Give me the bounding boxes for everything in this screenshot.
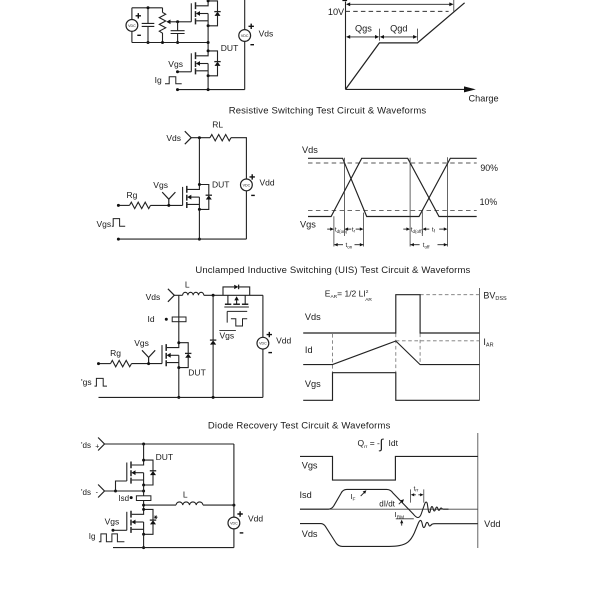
- label tf: [432, 226, 436, 233]
- svg-text:Qrr = -: Qrr = -: [358, 438, 381, 450]
- voltage source Vdd (resistive): [241, 174, 255, 239]
- svg-text:dI/dt: dI/dt: [379, 499, 395, 508]
- label Vds (DR waveform): [302, 529, 318, 539]
- Ig pulse glyph: [165, 77, 182, 84]
- svg-text:Vgs: Vgs: [97, 219, 112, 229]
- svg-text:Charge: Charge: [469, 94, 499, 104]
- wire Q6 source to bottom rail: [142, 534, 145, 549]
- label Rg: [127, 190, 138, 200]
- label Vds-: [81, 488, 99, 497]
- label Vdd (DR): [248, 514, 263, 524]
- svg-text:Vgs: Vgs: [302, 460, 318, 470]
- svg-text:Id: Id: [148, 314, 155, 324]
- dashed IAR level: [396, 340, 480, 342]
- svg-text:Vgs: Vgs: [153, 180, 168, 190]
- label Id: [148, 314, 155, 324]
- wire Q4 source to bottom: [177, 368, 180, 399]
- dashed 10V level line: [346, 10, 449, 12]
- label Vdd: [260, 177, 275, 187]
- mosfet Q4 DUT (UIS): [162, 341, 191, 369]
- resistor Rg: [130, 202, 151, 208]
- dashed vertical t2: [419, 334, 421, 365]
- mosfet Q1 (upper, driver): [191, 0, 220, 27]
- dashed BVDSS level: [420, 294, 479, 296]
- trr dimension arrows: [411, 493, 424, 496]
- title resistive switching: [229, 105, 427, 116]
- wire mid node to inductor: [144, 504, 176, 506]
- clamp mosfet body diode loop: [223, 285, 250, 296]
- svg-text:10V: 10V: [328, 7, 345, 17]
- title UIS: [195, 265, 470, 276]
- svg-text:'gs: 'gs: [81, 377, 92, 387]
- svg-text:Vdd: Vdd: [484, 519, 500, 529]
- svg-text:Unclamped Inductive Switching: Unclamped Inductive Switching (UIS) Test…: [195, 265, 470, 276]
- label Id (UIS waveform): [305, 345, 313, 355]
- wire input to Rg (UIS): [97, 362, 111, 365]
- label Vdd (UIS): [276, 336, 291, 346]
- svg-text:Vds: Vds: [305, 312, 321, 322]
- label DUT (DR): [156, 452, 173, 462]
- wire inductor to rail: [203, 504, 235, 507]
- wire top rail (DR): [105, 443, 234, 446]
- svg-text:Vgs: Vgs: [300, 220, 316, 230]
- label Vds (UIS circuit): [146, 292, 161, 302]
- svg-text:10%: 10%: [480, 197, 498, 207]
- label L (UIS): [185, 280, 190, 290]
- inductor L (DR): [176, 502, 203, 505]
- timing tick lines: [334, 157, 448, 246]
- svg-text:Vgs: Vgs: [220, 331, 235, 341]
- label Vds+: [81, 441, 99, 450]
- potentiometer wiper arrow: [166, 20, 177, 25]
- inverted Vgs drive pulse glyph: [227, 311, 247, 326]
- wire bottom rail (UIS): [99, 396, 263, 399]
- label 90%: [480, 163, 498, 173]
- svg-text:Resistive Switching Test Circu: Resistive Switching Test Circuit & Wavef…: [229, 105, 427, 116]
- label td(off): [411, 227, 424, 234]
- label RL: [212, 120, 223, 130]
- label Vgs (DR): [105, 517, 120, 527]
- label Vds (UIS waveform): [305, 312, 321, 322]
- label Vgs (waveform): [300, 220, 316, 230]
- clamp mosfet (rotated): [224, 295, 249, 307]
- label DUT: [221, 43, 238, 53]
- label Vgs (UIS waveform): [305, 379, 321, 389]
- svg-text:Vds: Vds: [166, 133, 181, 143]
- svg-text:Vgs: Vgs: [134, 338, 149, 348]
- probe Vds: [185, 131, 191, 144]
- svg-text:Vds: Vds: [302, 529, 318, 539]
- wire sense to mid node: [142, 501, 145, 510]
- right boundary line (UIS waveform): [479, 288, 481, 401]
- formula Qrr: [358, 436, 399, 451]
- wire bottom of bias loop: [132, 41, 208, 44]
- svg-text:Qgd: Qgd: [390, 23, 407, 33]
- wire Q1 drain up (clipped at top): [207, 0, 209, 1]
- label Vdd level (DR waveform): [484, 519, 500, 529]
- right boundary line (DR waveform): [477, 433, 479, 548]
- svg-text:Vgs: Vgs: [105, 517, 120, 527]
- wire input to Rg: [117, 204, 130, 207]
- mosfet Q5 DUT (DR top): [127, 459, 156, 487]
- Qgd dimension: [380, 29, 418, 41]
- svg-text:Vgs: Vgs: [305, 379, 321, 389]
- voltage source VDC bias: [126, 8, 141, 43]
- svg-text:'ds: 'ds: [81, 488, 91, 497]
- voltage source Vds: [239, 0, 254, 90]
- wire Vds- node: [105, 490, 146, 493]
- svg-text:Vdd: Vdd: [276, 336, 291, 346]
- svg-text:DUT: DUT: [212, 179, 229, 189]
- svg-text:Isd: Isd: [300, 490, 312, 500]
- label Isd: [118, 494, 129, 503]
- probe Vds+: [98, 438, 104, 451]
- capacitor C2: [171, 22, 185, 44]
- current sense Id: [165, 317, 186, 322]
- wire Q5 source to sense: [143, 485, 145, 496]
- current sense Isd: [130, 496, 151, 501]
- svg-text:Qgs: Qgs: [355, 23, 372, 33]
- label Vds: [259, 28, 274, 38]
- Vgs pulse glyph (UIS): [95, 378, 108, 386]
- label Vgs (UIS probe): [134, 338, 149, 348]
- mosfet Q2 DUT: [191, 49, 220, 77]
- Vgs trace: [308, 158, 477, 216]
- svg-text:DUT: DUT: [221, 43, 238, 53]
- node dot C1 top: [147, 6, 150, 9]
- svg-text:Ig: Ig: [155, 75, 162, 85]
- wire Vds node: [191, 136, 210, 139]
- svg-text:Rg: Rg: [110, 348, 121, 358]
- Vds trace (UIS): [303, 295, 479, 333]
- label DUT (resistive): [212, 179, 229, 189]
- dimension tf arrow: [439, 227, 447, 230]
- gate charge waveform y-axis: [345, 2, 347, 90]
- clamp diode branch: [210, 295, 216, 397]
- wire gate Q6: [112, 529, 127, 532]
- label Isd (DR waveform): [300, 490, 312, 500]
- Ig double pulse glyph: [99, 534, 125, 542]
- wire gate elbow Q5: [116, 481, 127, 491]
- gate charge Vgs trace: [346, 3, 465, 90]
- label Qgs: [355, 23, 372, 33]
- gate charge waveform x-axis with arrow: [346, 86, 476, 92]
- label ton: [346, 242, 353, 249]
- label td(on): [335, 227, 348, 234]
- wire Q5 drain up: [143, 444, 145, 460]
- dashed vertical t1: [395, 334, 397, 373]
- Isd trace (DR): [300, 489, 449, 517]
- svg-text:DUT: DUT: [188, 367, 205, 377]
- wire top rail UIS: [204, 294, 263, 297]
- label Vgs: [168, 59, 183, 69]
- label IF with arrow: [350, 490, 366, 502]
- voltage source Vdd (UIS): [257, 295, 272, 397]
- potentiometer: [159, 8, 165, 43]
- dimension td(off) arrow: [403, 227, 429, 230]
- svg-text:Vgs: Vgs: [168, 59, 183, 69]
- label Vgs probe: [153, 180, 168, 190]
- wire bottom rail (resistive): [117, 238, 247, 241]
- label IRM with arrow: [395, 510, 414, 526]
- svg-text:RL: RL: [212, 120, 223, 130]
- probe Vds-: [98, 485, 104, 498]
- wire Rg to gate (UIS): [132, 363, 163, 365]
- dimension toff: [410, 243, 447, 246]
- svg-text:DUT: DUT: [156, 452, 173, 462]
- label toff: [423, 242, 430, 249]
- wire Q2 source to rail: [207, 76, 210, 91]
- wire Rg to gate: [151, 204, 183, 206]
- voltage source Vdd (DR): [228, 444, 243, 548]
- label trr: [414, 485, 419, 492]
- wire gate of Q2: [176, 70, 191, 73]
- Qgs dimension: [346, 29, 379, 41]
- svg-text:Vdd: Vdd: [260, 177, 275, 187]
- asterisk on body diode: [154, 516, 158, 519]
- label Vds (waveform): [302, 145, 318, 155]
- dimension td(on) arrow: [327, 227, 351, 230]
- svg-text:Diode Recovery Test Circuit &: Diode Recovery Test Circuit & Waveforms: [208, 421, 391, 432]
- Vgs trace (UIS): [303, 373, 479, 401]
- label Vds probe: [166, 133, 181, 143]
- label IAR: [483, 337, 493, 349]
- wire drain vertical: [198, 138, 200, 185]
- label L (DR): [183, 489, 188, 499]
- label Rg (UIS): [110, 348, 121, 358]
- inductor L (UIS): [183, 292, 204, 295]
- capacitor C1: [142, 8, 155, 43]
- svg-text:Vdd: Vdd: [248, 514, 263, 524]
- svg-text:Ig: Ig: [89, 532, 96, 541]
- dimension ton: [334, 243, 363, 246]
- Vgs trace (DR): [300, 456, 478, 480]
- Vds trace: [308, 158, 477, 216]
- Id trace (UIS): [303, 341, 479, 365]
- wire bottom rail DUT loop: [176, 88, 245, 91]
- node dot C1 bottom: [147, 41, 150, 44]
- label Ig (DR): [89, 532, 96, 541]
- label BVDSS: [483, 291, 507, 303]
- wire wiper to gate of Q1: [176, 20, 191, 23]
- wire RL to rail: [231, 138, 246, 179]
- mosfet Q3 DUT (resistive): [183, 183, 212, 211]
- formula EAR: [325, 288, 373, 303]
- label Vgs drive: [97, 219, 112, 229]
- svg-text:Isd: Isd: [118, 494, 129, 503]
- svg-text:Vds: Vds: [146, 292, 161, 302]
- svg-text:'ds: 'ds: [81, 441, 91, 450]
- dashed vertical t0: [332, 334, 334, 372]
- resistor Rg (UIS): [111, 360, 132, 366]
- label Vgs drive (UIS): [81, 377, 92, 387]
- svg-text:Rg: Rg: [127, 190, 138, 200]
- wire Q3 source to bottom rail: [198, 209, 201, 240]
- dashed 90% line: [308, 162, 477, 164]
- wire bottom rail (DR): [113, 547, 234, 549]
- svg-text:Vds: Vds: [302, 145, 318, 155]
- label Charge: [469, 94, 499, 104]
- label DUT (UIS): [188, 367, 205, 377]
- label tr: [352, 226, 356, 233]
- Vds trace (DR): [300, 520, 478, 546]
- total gate charge span arrow: [342, 0, 453, 12]
- probe Vds (UIS): [168, 289, 174, 302]
- label 10%: [480, 197, 498, 207]
- svg-text:+: +: [95, 444, 99, 451]
- svg-text:Vds: Vds: [259, 28, 274, 38]
- label Vgs with overline: [219, 331, 236, 341]
- svg-text:L: L: [183, 489, 188, 499]
- svg-text:Id: Id: [305, 345, 313, 355]
- trr ticks: [411, 489, 424, 502]
- label Ig: [155, 75, 162, 85]
- dimension tr arrow: [356, 227, 364, 230]
- wire probe to inductor: [174, 294, 182, 296]
- Vgs pulse glyph: [112, 219, 125, 227]
- probe Vgs (Y): [162, 192, 175, 207]
- title diode recovery: [208, 421, 391, 432]
- mosfet Q6 (DR bottom): [127, 508, 156, 536]
- svg-text:L: L: [185, 280, 190, 290]
- Isd zero baseline: [300, 508, 478, 510]
- wire Q4 drain to top: [178, 295, 180, 342]
- wire top of bias loop: [132, 7, 163, 9]
- wire Q1 source down to Q2 drain: [207, 26, 210, 51]
- dashed 10% line: [308, 210, 477, 212]
- probe Vgs (UIS): [142, 350, 155, 365]
- svg-text:Idt: Idt: [389, 438, 399, 448]
- label Vgs (DR waveform): [302, 460, 318, 470]
- label Qgd: [390, 23, 407, 33]
- label 10V: [328, 7, 345, 17]
- label dI/dt with arrow: [379, 499, 404, 508]
- resistor RL: [210, 135, 231, 141]
- svg-text:90%: 90%: [480, 163, 498, 173]
